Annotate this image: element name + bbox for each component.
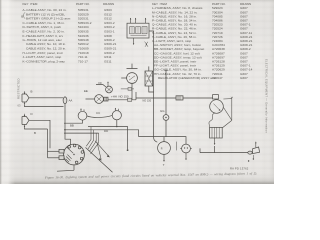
wire lamp EE to center bbox=[108, 99, 136, 101]
wire switch diagonal to terminal T bbox=[86, 148, 113, 173]
lamp ground dots bbox=[253, 158, 254, 159]
wire gauge left bottom lead bbox=[64, 120, 83, 123]
parts list right: item rows bbox=[152, 6, 253, 80]
regulator terminal arrow 3 bbox=[145, 18, 147, 23]
svg-text:B: B bbox=[31, 90, 33, 94]
svg-text:EE: EE bbox=[84, 89, 88, 93]
svg-text:T: T bbox=[163, 163, 165, 167]
svg-text:DD: DD bbox=[104, 129, 108, 133]
connector oval bbox=[248, 151, 252, 154]
wire headlight D to left bus bbox=[29, 120, 50, 148]
wire right diagonals bbox=[223, 99, 232, 128]
switch terminal block 1 bbox=[59, 149, 64, 153]
wire regulator right feed down to lamp group bbox=[149, 31, 157, 142]
wire arc between gauges bbox=[87, 115, 112, 117]
svg-text:KEY ITEM: KEY ITEM bbox=[23, 2, 38, 6]
wire bus C bbox=[64, 132, 99, 134]
parts list left: item rows bbox=[23, 8, 117, 63]
wire branch to connector arrow 1 bbox=[95, 141, 109, 156]
tick at top of GG line bbox=[164, 69, 168, 71]
lamp L1 bottom lead with arrow bbox=[163, 154, 165, 161]
trailer socket lamp L1 bbox=[158, 142, 171, 155]
parts list right: header row bbox=[152, 2, 251, 6]
lamp L2 bottom lead bbox=[185, 153, 187, 158]
svg-text:GG: GG bbox=[160, 109, 165, 113]
wire lamp FF elbow bbox=[96, 85, 106, 87]
svg-text:K–CONNECTOR, plug, 2-way: K–CONNECTOR, plug, 2-way bbox=[23, 59, 66, 63]
wire bus from connector AA down to switch bbox=[65, 104, 71, 145]
fuse block bbox=[145, 71, 153, 86]
parts list left: brace for battery rows bbox=[21, 13, 25, 19]
gauge CC left bbox=[78, 108, 87, 120]
gauge CC right bbox=[112, 108, 121, 120]
wire headlight D lower lead to bus bbox=[25, 127, 48, 129]
headlight D (lower left) bbox=[22, 114, 29, 128]
fuse bottom lead bbox=[149, 86, 154, 92]
regulator terminal arrow 1 bbox=[130, 18, 132, 23]
wire bottom bus left corner bbox=[199, 148, 201, 152]
connector AA bbox=[63, 97, 67, 104]
small vertical between lamps bbox=[176, 142, 178, 151]
ammeter bottom lead bbox=[131, 83, 133, 99]
svg-text:RESTRICTED: RESTRICTED bbox=[17, 78, 21, 99]
svg-text:BB: BB bbox=[70, 123, 74, 127]
wire horn feed horizontal bbox=[136, 92, 213, 100]
headlight B (upper left) bbox=[22, 91, 29, 105]
lamp L2 bbox=[180, 144, 192, 153]
wire drop 2 to switch bbox=[88, 130, 94, 149]
junction dot bus B bbox=[64, 129, 65, 130]
svg-text:B: B bbox=[21, 15, 23, 19]
svg-text:710-17: 710-17 bbox=[78, 59, 88, 63]
svg-text:D: D bbox=[31, 112, 33, 116]
svg-text:720647: 720647 bbox=[212, 76, 223, 80]
horn bbox=[210, 100, 224, 114]
ammeter bbox=[127, 73, 138, 84]
small connector NN bbox=[121, 88, 134, 91]
horn resistor block bbox=[210, 127, 223, 138]
ammeter left lead bbox=[121, 77, 126, 79]
svg-text:R: R bbox=[161, 148, 163, 151]
svg-text:+HH NO 150: +HH NO 150 bbox=[111, 95, 129, 99]
wire headlight B to connector AA bbox=[29, 97, 63, 99]
wire lamp EE left lead bbox=[86, 98, 95, 100]
svg-text:PART NO.: PART NO. bbox=[76, 2, 90, 6]
svg-text:63: 63 bbox=[18, 104, 21, 108]
regulator terminal arrow 2 bbox=[135, 18, 137, 23]
connector on horn feed bbox=[176, 96, 183, 100]
wire headlight B lower lead bbox=[25, 105, 64, 107]
wire branch to connector arrow 2 bbox=[97, 142, 101, 159]
svg-text:CC: CC bbox=[96, 111, 100, 115]
svg-text:G607: G607 bbox=[240, 76, 248, 80]
junction connector K bbox=[145, 42, 148, 47]
wire bus B bbox=[64, 130, 139, 137]
wire drop 1 to switch bbox=[86, 127, 91, 147]
wire center vertical with GG connector bbox=[165, 70, 167, 136]
svg-text:RA PD 13762: RA PD 13762 bbox=[230, 167, 249, 171]
connector GG circle bbox=[163, 115, 169, 121]
panel lamp EE bbox=[95, 95, 104, 104]
wire switch bottom stub bbox=[73, 165, 75, 170]
small socket on EE wire bbox=[128, 98, 132, 101]
parts list left: header row bbox=[23, 2, 115, 6]
resistor bottom lead with arrow bbox=[214, 138, 216, 145]
terminal dot bbox=[127, 149, 129, 151]
wire bus to switch connector 2 bbox=[48, 157, 60, 159]
wire bottom bus right bbox=[200, 152, 248, 154]
panel lamp FF bbox=[106, 82, 113, 93]
wire lamp-group top bus bbox=[139, 137, 186, 145]
regulator bottom lead bbox=[133, 38, 135, 45]
arrow tip branch 2 bbox=[99, 158, 102, 161]
connector on lamp EE right bbox=[104, 97, 108, 101]
wire left bus vertical bbox=[47, 129, 49, 158]
svg-text:Figure 16-30. Lighting system: Figure 16-30. Lighting system and tail p… bbox=[44, 171, 257, 179]
tick right bbox=[231, 97, 233, 99]
wire drop 3 to switch bbox=[89, 133, 96, 151]
light switch (main rotary switch) bbox=[64, 144, 85, 165]
svg-text:NO 150: NO 150 bbox=[143, 100, 152, 103]
svg-text:G511: G511 bbox=[104, 59, 112, 63]
voltage regulator box bbox=[127, 23, 149, 38]
switch terminal block 2 bbox=[59, 156, 64, 160]
blackout tail lamp bbox=[253, 142, 260, 159]
svg-text:ELECTRICAL EQUIPMENT — General: ELECTRICAL EQUIPMENT — Generally Informa… bbox=[265, 59, 269, 133]
svg-text:AA: AA bbox=[69, 99, 73, 103]
svg-text:REGULATOR (GENERATOR) ASSY asm: REGULATOR (GENERATOR) ASSY asm bbox=[158, 76, 217, 80]
svg-text:DRAWN: DRAWN bbox=[103, 2, 114, 6]
wire gauge right bottom lead bbox=[116, 120, 118, 127]
wire bus to switch connector 1 bbox=[48, 150, 60, 152]
horn coiled cable bbox=[209, 113, 214, 127]
junction dot bus A gauge bbox=[116, 126, 117, 127]
wire into lamp L1 bbox=[163, 137, 165, 142]
wire bus A bbox=[88, 127, 128, 150]
ammeter bar bbox=[127, 64, 138, 69]
svg-text:B: B bbox=[34, 131, 36, 135]
wire drop 4 to switch bbox=[91, 133, 99, 154]
fuse top lead bbox=[148, 66, 150, 71]
arrow tip branch 1 bbox=[107, 155, 110, 158]
horn bracket square bbox=[213, 95, 219, 99]
wire bottom elbow segment bbox=[57, 169, 74, 172]
wire resistor to bottom bus bbox=[214, 146, 216, 153]
